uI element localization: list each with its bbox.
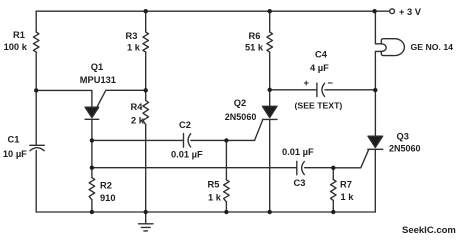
wire Q2 cathode down [269,119,271,212]
junction dot Q2 bottom [268,210,272,214]
junction dot R5 bottom [224,210,228,214]
svg-text:51 k: 51 k [245,43,264,53]
capacitor C3 [297,161,305,175]
wire Q1 gate to node [97,90,146,107]
svg-text:4 µF: 4 µF [310,63,329,73]
svg-text:2N5060: 2N5060 [225,112,257,122]
lamp GE NO. 14 [381,39,404,56]
svg-text:MPU131: MPU131 [80,75,116,85]
svg-text:Q3: Q3 [397,132,409,142]
svg-text:C4: C4 [315,50,328,60]
svg-text:+ 3 V: + 3 V [399,7,422,17]
svg-text:+: + [304,78,310,88]
junction dot top R6 [268,9,272,13]
wire R6 to Q2 anode [269,52,271,106]
capacitor C4 [317,83,325,97]
capacitor C2 [184,134,191,148]
wire R7 to rail [332,200,334,212]
svg-text:0.01 µF: 0.01 µF [171,149,203,159]
transistor Q1 (PUT MPU131) [85,107,99,117]
resistor R7 [331,180,337,201]
svg-text:−: − [328,78,334,88]
junction dot top R3 [144,9,148,13]
wire left rail mid [35,52,37,145]
svg-text:R5: R5 [208,180,220,190]
junction dot C4 right rail node [373,88,377,92]
wire R6 rail upper [269,11,271,32]
junction dot R3/R4 gate node [144,88,148,92]
svg-text:R3: R3 [126,31,138,41]
svg-text:GE NO. 14: GE NO. 14 [411,42,454,52]
wire left rail upper [35,11,37,32]
junction dot ground [144,210,148,214]
svg-text:Q2: Q2 [234,98,246,108]
wire top rail [36,10,390,12]
svg-text:1 k: 1 k [341,192,355,202]
svg-text:1 k: 1 k [127,43,141,53]
svg-text:0.01 µF: 0.01 µF [282,147,314,157]
junction dot R6/Q2/C4 node [268,88,272,92]
resistor R6 [267,32,273,52]
wire Q1 cathode down [91,119,93,177]
junction dot top lamp [372,9,376,13]
resistor R1 [33,32,39,52]
resistor R4 [143,101,149,125]
wire R5 branch [225,140,227,179]
svg-text:Q1: Q1 [91,62,103,72]
wire right rail top [375,11,381,44]
wire bottom rail [36,211,375,213]
resistor R5 [224,180,230,202]
ground [145,212,147,224]
terminal +3V [390,9,395,14]
junction dot R7 bottom [331,210,335,214]
svg-text:10 µF: 10 µF [3,149,27,159]
wire R2 to rail [91,200,93,212]
svg-text:2N5060: 2N5060 [389,143,421,153]
wire left rail lower [35,151,37,212]
wire R5 to rail [225,202,227,212]
wire C3 row [92,150,369,168]
svg-text:100 k: 100 k [4,42,28,52]
wire Q1 anode branch [36,90,92,107]
junction dot C2/R5 node [224,138,228,142]
svg-text:C2: C2 [179,120,191,130]
svg-text:R1: R1 [13,30,25,40]
svg-text:C1: C1 [8,134,20,144]
svg-text:SeekIC.com: SeekIC.com [402,225,456,236]
svg-text:C3: C3 [294,178,306,188]
wire lamp lower lead / right rail [375,51,381,136]
svg-text:R4: R4 [131,102,144,112]
wire R3 to node [145,52,147,100]
junction dot C3/R7 node [331,166,335,170]
capacitor C1 [30,145,45,150]
wire C2 row [92,139,255,141]
junction dot left rail node [34,88,38,92]
wire R3/R4 rail upper [145,11,147,32]
wire R7 branch [332,168,334,180]
svg-text:1 k: 1 k [208,193,222,203]
wire C4 row [270,89,376,91]
svg-text:R7: R7 [340,180,352,190]
junction dot R2 bottom [90,210,94,214]
resistor R3 [143,32,149,52]
wire Q3 cathode to rail [374,149,376,212]
resistor R2 [89,178,95,200]
svg-text:910: 910 [100,193,116,203]
svg-text:R2: R2 [100,181,112,191]
transistor Q3 (SCR 2N5060) [368,136,383,147]
junction dot Q1 cathode C3 node [90,166,94,170]
svg-text:2 k: 2 k [131,116,145,126]
transistor Q2 (SCR 2N5060) [262,106,277,117]
svg-text:(SEE TEXT): (SEE TEXT) [295,100,343,110]
svg-text:R6: R6 [249,31,261,41]
junction dot Q1 cathode C2 node [90,138,94,142]
wire R4 down to ground rail [145,125,147,213]
